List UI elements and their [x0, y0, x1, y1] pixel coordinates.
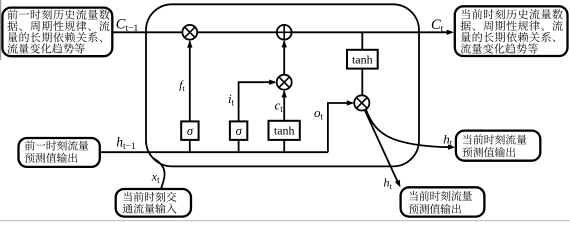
text line 2 of bottom-right box: [409, 204, 461, 214]
box: current prediction output (bottom right, h t): [401, 187, 485, 216]
box: current prediction output (right, h t): [456, 131, 540, 161]
box: previous cell-state description (top left): [2, 8, 112, 57]
text line 2 of bottom box: [123, 203, 177, 213]
text line 1 of top-right box: [461, 9, 563, 19]
wire: x t input curve from bottom box merging into cell corner: [153, 158, 165, 189]
text line 4 of top-right box: [461, 43, 538, 53]
multiplier X3 (output gate product): [354, 95, 369, 110]
multiplier X2 (input gate product): [277, 75, 292, 90]
page edge artifact: gray vertical line at far left: [0, 0, 2, 60]
svg-text:tanh: tanh: [352, 52, 373, 66]
text line 3 of top-left box: [8, 32, 102, 42]
text line 1 of bottom box: [123, 192, 176, 202]
wire: cell-state line Ct-1 -> Ct (top horizontal): [112, 31, 452, 33]
arrowhead into multiplier X2 from below: [282, 90, 287, 97]
text line 4 of top-left box: [7, 43, 84, 53]
text line 1 of right box: [463, 134, 527, 144]
page edge artifact: gray horizontal rule near bottom: [0, 220, 570, 222]
arrowhead into multiplier X1: [187, 40, 192, 47]
gate box sigma2 (input gate): [230, 121, 247, 139]
arrowhead into adder from below: [282, 40, 287, 47]
wire: multiplier X2 up to adder: [283, 41, 285, 74]
box: current traffic input (bottom, x t): [116, 189, 191, 217]
arrowhead into bottom h t output box: [395, 180, 401, 188]
text line 1 of top-left box: [7, 9, 109, 19]
text line 1 of left box: [25, 140, 89, 150]
text line 2 of top-right box: [460, 21, 562, 31]
wire: tanh1 stub to bus: [283, 140, 285, 152]
wire: sigma2 stub to bus: [238, 140, 240, 152]
wire: input gate i t (sigma2 up then right into multiplier X2): [239, 82, 275, 121]
LSTM cell body (rounded rectangle): [146, 4, 419, 166]
gate box tanh1 (candidate): [269, 121, 300, 140]
text line 2 of left box: [25, 153, 78, 163]
gate box sigma1 (forget gate): [181, 121, 198, 139]
wire: h t-1 input line / gate bus (bottom horizontal): [100, 151, 328, 153]
wire: forget gate f t vertical (sigma1 -> multiplier X1): [189, 41, 191, 121]
wire: h t output diagonal to bottom output box: [365, 110, 399, 184]
arrowhead into multiplier X2: [269, 80, 276, 85]
svg-text:tanh: tanh: [274, 124, 295, 138]
multiplier X1 (forget gate product): [182, 25, 197, 40]
text line 2 of right box: [462, 147, 515, 157]
wire: candidate c t vertical (tanh1 -> multiplier X2): [283, 91, 285, 121]
arrowhead into multiplier X3: [347, 100, 354, 105]
text line 1 of bottom-right box: [409, 191, 472, 201]
arrowhead into Ct output box: [447, 30, 454, 35]
wire: output gate o t (bus up then right into multiplier X3): [328, 103, 353, 152]
svg-text:σ: σ: [236, 124, 243, 138]
arrowhead into right h t output box: [448, 144, 455, 149]
wire: cell-state tap down to tanh2: [361, 32, 363, 50]
box tanh2 (output tanh): [347, 50, 378, 69]
wire: sigma1 stub to bus: [189, 140, 191, 152]
adder (cell state sum): [277, 25, 292, 40]
text line 2 of top-left box: [7, 21, 109, 31]
box: current cell-state description (top right): [455, 6, 568, 56]
text line 3 of top-right box: [461, 32, 555, 42]
svg-text:σ: σ: [187, 124, 194, 138]
wire: h t output curve to right-hand output box: [366, 109, 451, 147]
box: previous prediction output (left, h t-1): [19, 138, 100, 167]
wire: tanh2 down to multiplier X3: [361, 69, 363, 96]
